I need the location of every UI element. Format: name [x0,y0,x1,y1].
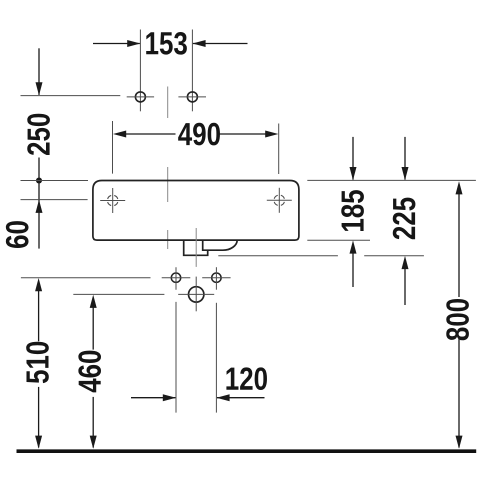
drain trap outline [184,241,208,256]
dimension 120 left shaft [131,397,175,399]
dimension 490 right shaft [220,133,266,135]
label 120 [226,367,267,390]
label 60 [6,221,29,248]
label 800 [446,299,469,340]
dimension 153 right arrowhead [192,40,205,47]
fixing hole left dashed circle [108,195,118,205]
dimension 250 top shaft [38,48,40,95]
dimension 250 down arrowhead [36,82,43,95]
dimension 800 up arrowhead [456,181,463,194]
supply hole left crosshairs [162,277,191,279]
tap hole right crosshair horizontal [178,96,206,98]
fixing hole level extension line left [21,199,88,201]
drain hole circle [189,287,204,302]
dimension 185 top shaft [352,137,354,180]
dimension 510 lower shaft [38,387,40,448]
label 250 [27,114,50,155]
drain level extension line [73,293,164,295]
dimension 490 extension line right [278,124,280,175]
dimension 510 up arrowhead [35,278,42,291]
supply hole circle right [212,273,221,282]
dimension 460 down arrowhead [90,436,97,449]
dimension 153 left shaft [93,43,140,45]
dimension 153 right shaft [193,43,248,45]
dimension 460 up arrowhead [90,295,97,308]
dimension 250 dot terminator [36,177,42,183]
label 185 [341,190,364,231]
basin bottom level extension line right [307,239,370,241]
dimension 120 extension line left [175,302,177,413]
drain centerline [195,228,197,267]
dimension 185 down arrowhead [350,167,357,180]
supply hole level extension line [21,277,151,279]
dimension 225 bottom shaft [404,268,406,305]
dimension 250/60 lower shaft [38,158,40,249]
floor line [17,449,477,453]
dimension 490 left arrowhead [113,131,126,138]
tap hole level extension line [21,95,121,97]
dimension 225 up arrowhead [402,256,409,269]
dimension 120 right shaft [217,397,265,399]
dimension 490 extension line left [112,121,114,174]
washbasin outline [93,181,299,241]
drain hole crosshairs [178,293,214,295]
dimension 153 extension line left [139,30,141,112]
rim level extension line left [21,180,89,182]
dimension 800 lower shaft [458,339,460,448]
fixing hole left cross [100,200,125,202]
dimension 510 upper shaft [38,290,40,341]
fixing hole right dashed circle [274,195,284,205]
label 153 [146,32,187,55]
supply hole circle left [171,273,180,282]
label 460 [78,351,101,393]
dimension 460 lower shaft [92,397,94,448]
tap hole circle right [187,92,197,102]
overflow level line right segment [364,255,424,257]
dimension 120 left arrowhead [163,394,176,401]
dimension 185 up arrowhead [350,240,357,253]
dimension 225 down arrowhead [402,167,409,180]
basin inner profile [203,240,238,250]
dimension 800 upper shaft [458,193,460,297]
dimension 490 right arrowhead [265,131,278,138]
dimension 490 left shaft [126,133,176,135]
centerline lower segment [167,230,169,249]
dimension 185 bottom shaft [352,252,354,287]
label 510 [26,342,49,383]
label 225 [393,198,416,240]
supply hole right crosshairs [202,277,230,279]
dimension 800 down arrowhead [456,436,463,449]
dimension 460 upper shaft [92,307,94,350]
fixing hole right cross [267,199,292,201]
dimension 120 extension line right [215,303,217,413]
label 490 [178,123,220,146]
dimension 60 up arrowhead [36,200,43,213]
rim level extension line right [307,179,476,181]
dimension 120 right arrowhead [216,394,229,401]
centerline middle segment [167,167,169,202]
dimension 153 extension line right [191,30,193,112]
dimension 225 top shaft [404,137,406,180]
tap hole circle left [135,92,145,102]
overflow level line left segment [218,255,338,257]
dimension 510 down arrowhead [35,436,42,449]
dimension 153 left arrowhead [127,40,140,47]
centerline top segment [167,87,169,119]
tap hole left crosshair horizontal [127,96,154,98]
